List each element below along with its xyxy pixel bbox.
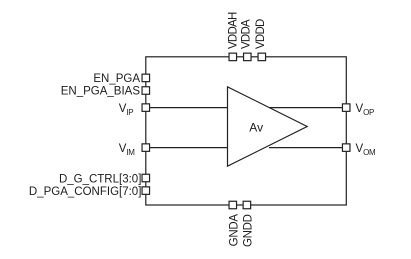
pin EN_PGA <box>142 74 150 82</box>
svg-text:D_G_CTRL[3:0]: D_G_CTRL[3:0] <box>59 173 141 185</box>
pin GNDD <box>243 201 251 209</box>
wire V_IP input <box>150 107 227 109</box>
svg-text:GNDA: GNDA <box>229 214 241 247</box>
pin VDDA <box>244 53 252 61</box>
wire V_IM input <box>150 147 227 149</box>
pin D_PGA_CONFIG <box>142 187 150 195</box>
pin VDDD <box>258 53 266 61</box>
svg-text:EN_PGA: EN_PGA <box>93 73 140 85</box>
wire V_OP output <box>269 107 342 109</box>
pin D_G_CTRL <box>142 174 150 182</box>
svg-text:VDDD: VDDD <box>255 19 267 49</box>
svg-text:VDDA: VDDA <box>241 19 253 49</box>
svg-text:VDDAH: VDDAH <box>227 12 239 49</box>
svg-text:Av: Av <box>249 121 263 135</box>
wire V_OM output <box>269 147 342 149</box>
pin V_OM <box>342 144 350 152</box>
pin V_IP <box>142 104 150 112</box>
pin GNDA <box>229 201 237 209</box>
svg-text:D_PGA_CONFIG[7:0]: D_PGA_CONFIG[7:0] <box>29 186 141 198</box>
op-amp Av triangle <box>228 87 308 166</box>
pin VDDAH <box>229 53 237 61</box>
pin V_OP <box>342 104 350 112</box>
svg-text:EN_PGA_BIAS: EN_PGA_BIAS <box>61 85 141 97</box>
pin V_IM <box>142 144 150 152</box>
block outline U1 <box>146 57 346 205</box>
svg-text:GNDD: GNDD <box>242 214 254 247</box>
pin EN_PGA_BIAS <box>142 87 150 95</box>
